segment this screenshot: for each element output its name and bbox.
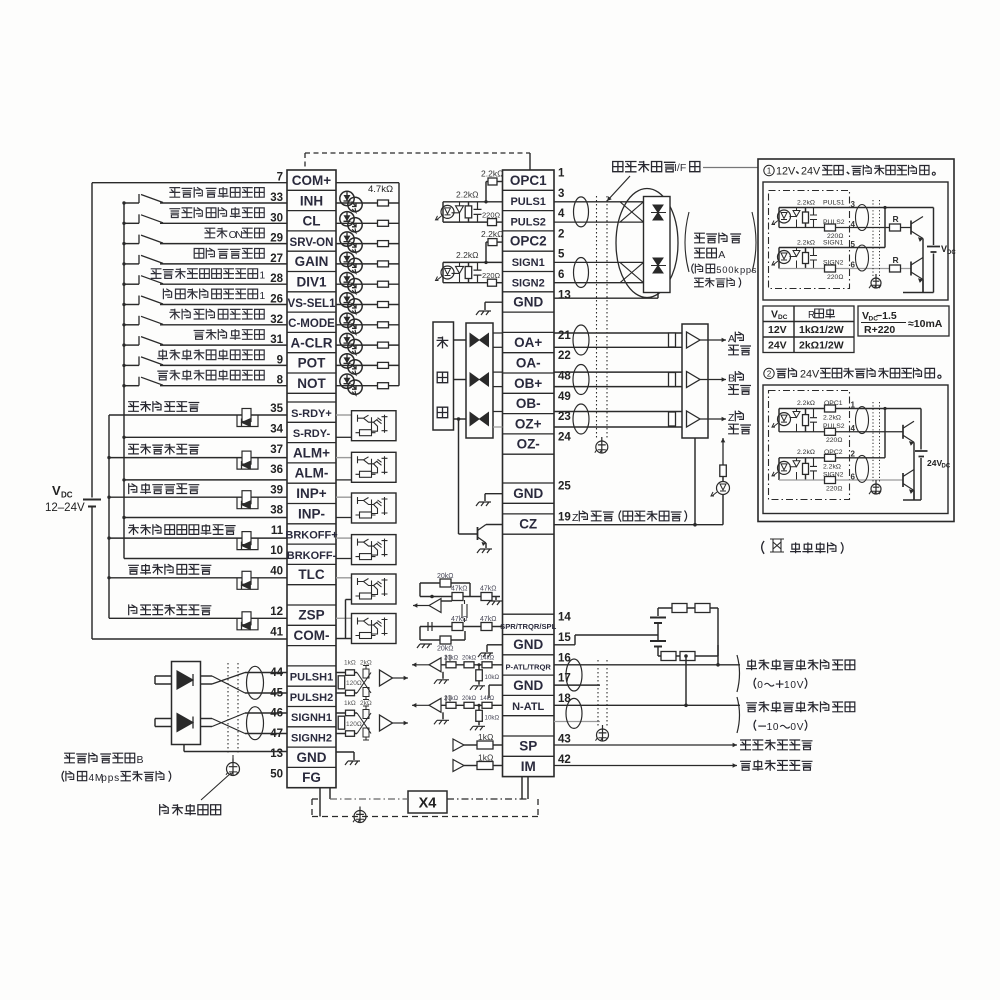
svg-text:SIGNH1: SIGNH1: [291, 712, 332, 724]
svg-text:3: 3: [558, 188, 564, 200]
label 定位结束输出: [129, 484, 137, 494]
svg-text:42: 42: [558, 754, 571, 766]
svg-text:PULSH2: PULSH2: [290, 692, 333, 704]
photocoupler output box TLC: [336, 577, 352, 579]
svg-text:A: A: [718, 249, 725, 261]
svg-text:INP-: INP-: [298, 506, 325, 521]
panel1 shield dotted + earth: [872, 200, 874, 276]
svg-text:I/F: I/F: [674, 162, 686, 174]
dash-dot servo box ②: [769, 391, 850, 500]
4.7k pull-up bus vertical: [398, 183, 400, 386]
svg-text:14kΩ: 14kΩ: [480, 655, 495, 661]
svg-text:220Ω: 220Ω: [827, 274, 843, 281]
twisted pair ellipse (P-ATL/GND): [566, 659, 582, 691]
svg-text:2.2kΩ: 2.2kΩ: [823, 415, 841, 422]
driver outputs to pins 21/22/48/49/23/24: [493, 332, 503, 334]
svg-text:47kΩ: 47kΩ: [480, 616, 497, 623]
svg-text:47kΩ: 47kΩ: [480, 586, 497, 593]
encoder pair A相 wires: [554, 332, 682, 334]
svg-text:B: B: [137, 754, 144, 766]
SP wire + label 速度检测输出: [554, 744, 737, 746]
input photocoupler + 4.7k resistor A-CLR: [336, 344, 399, 346]
svg-text:2.2kΩ: 2.2kΩ: [481, 169, 503, 179]
svg-text:NOT: NOT: [297, 376, 326, 391]
svg-text:2kΩ: 2kΩ: [360, 700, 372, 707]
svg-text:V: V: [52, 483, 61, 498]
svg-text:34: 34: [270, 423, 283, 435]
svg-text:A-CLR: A-CLR: [291, 335, 333, 350]
svg-text:2.2kΩ: 2.2kΩ: [456, 250, 478, 260]
outer shield dashed loop: [312, 816, 538, 818]
input switch + wire VS-SEL1 (减振控制选择输入1): [124, 304, 139, 306]
svg-text:14: 14: [558, 612, 571, 624]
twisted pair crossover PULSH: [201, 675, 213, 677]
svg-text:2: 2: [558, 228, 564, 240]
shield bus dash-dot lines: [330, 798, 408, 800]
svg-text:32: 32: [270, 314, 283, 326]
P-ATL wire pin16: [554, 664, 740, 666]
svg-text:5: 5: [851, 240, 856, 249]
twisted-pair legend note: [762, 541, 764, 554]
svg-text:6: 6: [851, 261, 856, 270]
label 伺服警报输出: [129, 444, 139, 454]
dash-dot servo box ①: [769, 191, 850, 289]
label （请在4Mpps以下使用）: [62, 771, 64, 782]
panel2 OPC2/SIGN2 group: [778, 458, 780, 480]
input switch + wire CL (偏差计数清除输入): [124, 222, 139, 224]
twisted pair ellipse PULSH: [247, 666, 264, 699]
svg-text:31: 31: [270, 334, 283, 346]
label 指令脉冲输入B: [65, 753, 75, 763]
cable shield dotted lines (top, to encoder-out rows): [596, 196, 598, 440]
back-to-back LED pair (PULS): [651, 205, 666, 220]
wires PULSH1/2 SIGNH1/2 to pins 44-47: [245, 672, 287, 674]
crossover inside cloud: [620, 202, 644, 283]
svg-text:Z: Z: [572, 512, 579, 524]
svg-text:35: 35: [270, 403, 283, 415]
PULS1/PULS2/OPC1 input photocoupler circuit: [443, 201, 503, 203]
internal line driver box (OA/OB/OZ): [466, 323, 493, 438]
twisted pair crossover SIGNH: [201, 718, 213, 720]
svg-text:20kΩ: 20kΩ: [437, 646, 454, 653]
panel2 OPC2 to + rail link: [884, 409, 886, 458]
svg-text:50: 50: [270, 769, 283, 781]
svg-text:DC: DC: [942, 464, 951, 470]
connector block right column (pulse/encoder/analog I/O): [500, 168, 571, 777]
X4 connector box: [408, 791, 447, 813]
svg-text:4: 4: [851, 424, 856, 433]
line driver buffer: [177, 671, 193, 689]
svg-text:24: 24: [558, 431, 571, 443]
GND17 wire pin17: [554, 684, 600, 686]
svg-text:6: 6: [851, 473, 856, 482]
svg-text:5: 5: [558, 249, 565, 261]
label 外设制动器解除输出: [129, 525, 139, 535]
label 正方向驱动禁止输入: [158, 350, 168, 360]
svg-text:3: 3: [851, 200, 856, 209]
N-ATL wire pin18: [554, 704, 740, 706]
svg-text:S-RDY+: S-RDY+: [291, 408, 332, 420]
svg-text:37: 37: [270, 444, 283, 456]
panel2 transistor 2: [902, 473, 904, 487]
SP output buffer + 1k: [453, 739, 464, 751]
panel1 R resistors: [890, 224, 901, 231]
input photocoupler + 4.7k resistor VS-SEL1: [336, 304, 399, 306]
bowtie driver symbol: [470, 334, 489, 347]
label 零速度检测输出: [129, 605, 137, 615]
SPR lower path + 20k to ground: [420, 626, 503, 628]
svg-text:1: 1: [259, 290, 265, 302]
svg-text:p: p: [740, 264, 745, 275]
svg-text:OA+: OA+: [514, 335, 542, 350]
input photocoupler + 4.7k resistor INH: [336, 202, 399, 204]
svg-text:23: 23: [558, 411, 571, 423]
input switch + wire NOT (负方向驱动禁止输入): [124, 385, 139, 387]
svg-text:49: 49: [558, 391, 571, 403]
column2 bottom connection to X4 shield: [521, 777, 523, 799]
twisted pair ellipse (SIGN pair): [574, 258, 589, 288]
shield dotted (torque input cable): [597, 660, 599, 728]
svg-text:1kΩ: 1kΩ: [478, 732, 493, 742]
svg-text:s: s: [114, 773, 119, 784]
battery VDC 12-24V: [83, 500, 101, 507]
protective earth on shield bus: [354, 811, 366, 823]
bus: VDC supply vertical (COM+ to COM-): [91, 183, 93, 498]
svg-text:24V: 24V: [800, 369, 820, 381]
svg-text:20kΩ: 20kΩ: [444, 655, 459, 661]
svg-text:GND: GND: [513, 678, 543, 693]
wires pins 3/4/5/6 to twisted pairs: [554, 201, 644, 203]
circuit box ②: [763, 385, 948, 514]
svg-text:SIGN1: SIGN1: [823, 240, 844, 247]
dashed link between columns (top): [304, 153, 306, 170]
output wire pair S-RDY: [109, 414, 287, 416]
svg-text:4: 4: [851, 220, 856, 229]
svg-text:220Ω: 220Ω: [482, 271, 501, 280]
svg-text:PULS2: PULS2: [510, 216, 545, 228]
FG connection verticals: [319, 788, 321, 817]
label 指令脉冲禁止输入: [170, 188, 180, 198]
input switch + wire A-CLR (警报清除输入): [124, 344, 139, 346]
encoder pair B相 wires: [554, 371, 682, 373]
input switch + wire GAIN (增益转换输入): [124, 263, 139, 265]
terminator resistor A相: [669, 333, 676, 347]
GND15 stub + ground: [487, 644, 503, 646]
svg-text:39: 39: [270, 484, 283, 496]
svg-text:INH: INH: [300, 193, 323, 208]
terminator resistor Z相: [669, 412, 676, 426]
receiver triangle Z相: [687, 411, 701, 427]
arrow + label A相输出: [700, 339, 726, 341]
left column pin numbers: [270, 172, 283, 781]
label 负方向驱动禁止输入: [158, 371, 168, 380]
wire COM+ pin7 to VDC bus: [92, 182, 287, 184]
svg-text:B: B: [728, 373, 735, 385]
svg-text:2kΩ: 2kΩ: [360, 660, 372, 667]
label 偏差计数清除输入: [170, 209, 180, 218]
svg-text:CZ: CZ: [519, 517, 537, 532]
svg-text:17: 17: [558, 673, 571, 685]
back-to-back LED pair (SIGN): [651, 258, 666, 273]
svg-text:1kΩ: 1kΩ: [344, 660, 356, 667]
input switch + wire POT (正方向驱动禁止输入): [124, 364, 139, 366]
svg-text:GAIN: GAIN: [295, 254, 329, 269]
table VDC / R spec: [763, 306, 854, 353]
relay load + flyback diode clamp (BRKOFF): [237, 538, 258, 550]
svg-text:13: 13: [270, 748, 283, 760]
svg-text:k: k: [734, 264, 739, 275]
svg-text:2.2kΩ: 2.2kΩ: [481, 229, 503, 239]
svg-text:SIGN1: SIGN1: [512, 257, 545, 269]
svg-text:5: 5: [716, 264, 721, 275]
svg-text:OA-: OA-: [516, 356, 541, 371]
svg-text:V: V: [797, 680, 804, 691]
svg-text:SPR/TRQR/SPL: SPR/TRQR/SPL: [500, 622, 556, 631]
line driver box (command pulse input B): [172, 662, 201, 745]
svg-text:OZ+: OZ+: [515, 416, 542, 431]
bus: plus-outputs vertical: [108, 415, 110, 618]
svg-text:IM: IM: [521, 759, 536, 774]
svg-text:2.2kΩ: 2.2kΩ: [797, 449, 815, 456]
svg-text:POT: POT: [298, 356, 327, 371]
svg-text:47kΩ: 47kΩ: [451, 586, 468, 593]
svg-text:43: 43: [558, 734, 571, 746]
svg-text:12V: 12V: [776, 166, 796, 178]
svg-text:CL: CL: [303, 214, 321, 229]
line driver buffer: [177, 714, 193, 732]
label 伺服ON输入: [205, 228, 215, 238]
svg-text:6: 6: [558, 269, 564, 281]
svg-text:PULS1: PULS1: [510, 196, 545, 208]
svg-text:2.2kΩ: 2.2kΩ: [797, 400, 815, 407]
svg-text:22: 22: [558, 350, 571, 362]
divider to line-driver links: [454, 339, 467, 341]
svg-text:1: 1: [851, 401, 856, 410]
svg-text:SIGN2: SIGN2: [512, 277, 545, 289]
svg-text:120Ω: 120Ω: [346, 680, 362, 687]
svg-text:PULS2: PULS2: [823, 423, 845, 430]
twisted pair ellipse A相: [573, 325, 589, 355]
arrow + label Z相输出: [700, 418, 726, 420]
arrow + label B相输出: [700, 379, 726, 381]
svg-text:SIGN2: SIGN2: [823, 472, 844, 479]
svg-text:36: 36: [270, 464, 283, 476]
svg-text:18: 18: [558, 693, 571, 705]
title ②: [764, 368, 774, 378]
svg-text:1: 1: [767, 167, 771, 176]
svg-text:−1.5: −1.5: [876, 310, 897, 322]
svg-text:C-MODE: C-MODE: [288, 318, 335, 330]
panel2 24VDC battery + rails: [920, 409, 922, 450]
photocoupler output box BRKOFF: [336, 537, 352, 539]
svg-text:SP: SP: [519, 739, 537, 754]
svg-text:47kΩ: 47kΩ: [451, 616, 468, 623]
svg-text:27: 27: [270, 253, 283, 265]
svg-text:SRV-ON: SRV-ON: [290, 237, 334, 249]
panel1 VDC battery + rails: [933, 208, 935, 246]
svg-text:OB-: OB-: [516, 396, 541, 411]
svg-text:GND: GND: [513, 295, 543, 310]
svg-text:2: 2: [767, 370, 771, 379]
svg-text:OZ-: OZ-: [517, 437, 540, 452]
svg-text:7: 7: [277, 172, 283, 184]
terminator resistor B相: [669, 373, 676, 387]
bowtie driver symbol: [470, 373, 489, 386]
label 伺服准备输出: [129, 402, 139, 412]
IM wire + label 转矩检测输出: [554, 765, 737, 767]
svg-text:≈10mA: ≈10mA: [908, 318, 943, 330]
bus: switch common / minus-outputs vertical: [123, 203, 125, 559]
svg-text:S-RDY-: S-RDY-: [293, 428, 331, 440]
svg-text:DC: DC: [61, 491, 73, 500]
title ①: [764, 165, 774, 175]
svg-text:0: 0: [790, 680, 796, 691]
svg-text:10kΩ: 10kΩ: [485, 674, 500, 681]
label 指令分倍频选择输入1: [151, 269, 161, 279]
svg-text:4.7kΩ: 4.7kΩ: [368, 184, 393, 195]
twisted pair ellipse B相: [573, 365, 589, 395]
svg-text:0: 0: [728, 264, 733, 275]
label 集电极开路I/F时: [613, 162, 623, 172]
svg-text:0: 0: [722, 264, 727, 275]
frequency divider box 分频器: [433, 322, 454, 430]
output wire pair BRKOFF: [109, 537, 287, 539]
photocoupler output box S-RDY: [336, 414, 352, 416]
svg-text:p: p: [746, 264, 751, 275]
svg-text:SIGNH2: SIGNH2: [291, 733, 332, 745]
output wire pair ALM: [109, 457, 287, 459]
external battery network (torque limit sources): [657, 608, 659, 616]
interface unit box inside cloud: [644, 197, 671, 293]
svg-text:OB+: OB+: [514, 376, 542, 391]
photocoupler output box ZSP: [336, 617, 352, 619]
circuit box ①: [763, 182, 948, 300]
outer panel box: [758, 159, 954, 522]
svg-text:V: V: [771, 309, 778, 321]
input switch + wire DIV1 (指令分倍频选择输入1): [124, 283, 139, 285]
svg-text:OPC2: OPC2: [824, 449, 843, 456]
svg-text:28: 28: [270, 273, 283, 285]
svg-text:R+220: R+220: [864, 324, 895, 336]
GND pin13 wire to driver box: [183, 745, 185, 752]
svg-text:12: 12: [270, 606, 283, 618]
svg-text:2kΩ1/2W: 2kΩ1/2W: [799, 340, 844, 352]
GND25 stub + ground: [485, 493, 503, 495]
svg-text:OPC1: OPC1: [510, 173, 547, 188]
input photocoupler + 4.7k resistor POT: [336, 364, 399, 366]
svg-text:26: 26: [270, 294, 283, 306]
label 减振控制选择输入1: [163, 289, 171, 299]
GND13 return wire under cloud: [554, 297, 658, 299]
svg-text:1: 1: [784, 680, 790, 691]
svg-text:1: 1: [767, 722, 773, 733]
output wire pair ZSP: [109, 617, 287, 619]
output wire pair INP: [109, 496, 287, 498]
svg-text:4: 4: [558, 208, 565, 220]
svg-text:p: p: [101, 773, 107, 784]
IM output buffer + 1k: [453, 760, 464, 772]
svg-text:PULS1: PULS1: [823, 200, 845, 207]
svg-text:24V: 24V: [768, 340, 787, 352]
svg-text:ALM-: ALM-: [295, 466, 329, 481]
panel1 PULS photocoupler group: [778, 208, 780, 228]
input photocoupler + 4.7k resistor DIV1: [336, 283, 399, 285]
connector block left column (X4 control I/O): [285, 170, 337, 788]
label 转矩限制中输出: [129, 565, 139, 574]
bowtie driver symbol: [470, 413, 489, 426]
relay load + flyback diode clamp (TLC): [237, 578, 258, 590]
receiver triangle B相: [687, 372, 701, 388]
input switch + wire SRV-ON (伺服ON输入): [124, 243, 139, 245]
panel2 twisted pairs: [856, 407, 869, 434]
svg-text:A: A: [728, 333, 735, 345]
relay load + flyback diode clamp (ALM): [237, 458, 258, 470]
svg-text:GND: GND: [297, 750, 327, 765]
svg-text:220Ω: 220Ω: [826, 437, 842, 444]
twisted pair ellipse (N-ATL/GND): [566, 698, 582, 728]
svg-text:R: R: [893, 255, 899, 265]
label 指令脉冲输入A (500kpps): [695, 233, 705, 243]
photocoupler output box INP: [336, 496, 352, 498]
svg-text:2.2kΩ: 2.2kΩ: [823, 464, 841, 471]
svg-text:220Ω: 220Ω: [826, 486, 842, 493]
input photocoupler + 4.7k resistor NOT: [336, 385, 399, 387]
input switch + wire C-MODE (控制模式选择输入): [124, 324, 139, 326]
svg-text:0: 0: [790, 722, 796, 733]
svg-text:4: 4: [89, 773, 95, 784]
label 增益转换输入: [194, 249, 204, 259]
open-collector interface cloud (ellipse): [616, 189, 678, 298]
svg-text:GND: GND: [513, 486, 543, 501]
svg-text:0: 0: [757, 680, 763, 691]
svg-text:R: R: [893, 214, 899, 224]
bracket + label 正方向转矩限制输入: [737, 655, 740, 692]
svg-text:BRKOFF-: BRKOFF-: [287, 550, 337, 562]
svg-text:FG: FG: [302, 770, 321, 785]
svg-text:30: 30: [270, 212, 283, 224]
shield earth (torque cable): [597, 729, 609, 741]
svg-text:V: V: [797, 722, 804, 733]
svg-text:1kΩ1/2W: 1kΩ1/2W: [799, 324, 844, 336]
svg-text:DIV1: DIV1: [296, 275, 327, 290]
svg-text:X4: X4: [419, 796, 437, 812]
svg-text:13: 13: [558, 289, 571, 301]
svg-text:N-ATL: N-ATL: [512, 701, 544, 713]
twisted pair ellipse SIGNH: [247, 707, 264, 740]
receiver box bottom to CZ wire link: [694, 438, 696, 525]
N-ATL input network: [429, 698, 441, 712]
svg-text:38: 38: [270, 505, 283, 517]
pair2 return stub: [554, 721, 600, 723]
svg-text:COM+: COM+: [292, 173, 331, 188]
svg-text:0: 0: [773, 722, 779, 733]
svg-text:12V: 12V: [768, 324, 787, 336]
svg-text:29: 29: [270, 233, 283, 245]
svg-text:120Ω: 120Ω: [346, 721, 362, 728]
svg-text:8: 8: [277, 375, 284, 387]
svg-text:20kΩ: 20kΩ: [462, 655, 477, 661]
svg-text:41: 41: [270, 626, 283, 638]
receiver triangle A相: [687, 332, 701, 348]
pull-up branch: LED + resistor + arrow up: [722, 495, 724, 525]
svg-text:1kΩ: 1kΩ: [478, 753, 493, 763]
svg-text:40: 40: [270, 566, 283, 578]
formula box: [858, 306, 949, 336]
svg-text:24V: 24V: [927, 458, 942, 468]
svg-text:20kΩ: 20kΩ: [437, 573, 454, 580]
GND13 stub right + ground: [336, 751, 354, 753]
svg-text:OPC1: OPC1: [824, 400, 843, 407]
